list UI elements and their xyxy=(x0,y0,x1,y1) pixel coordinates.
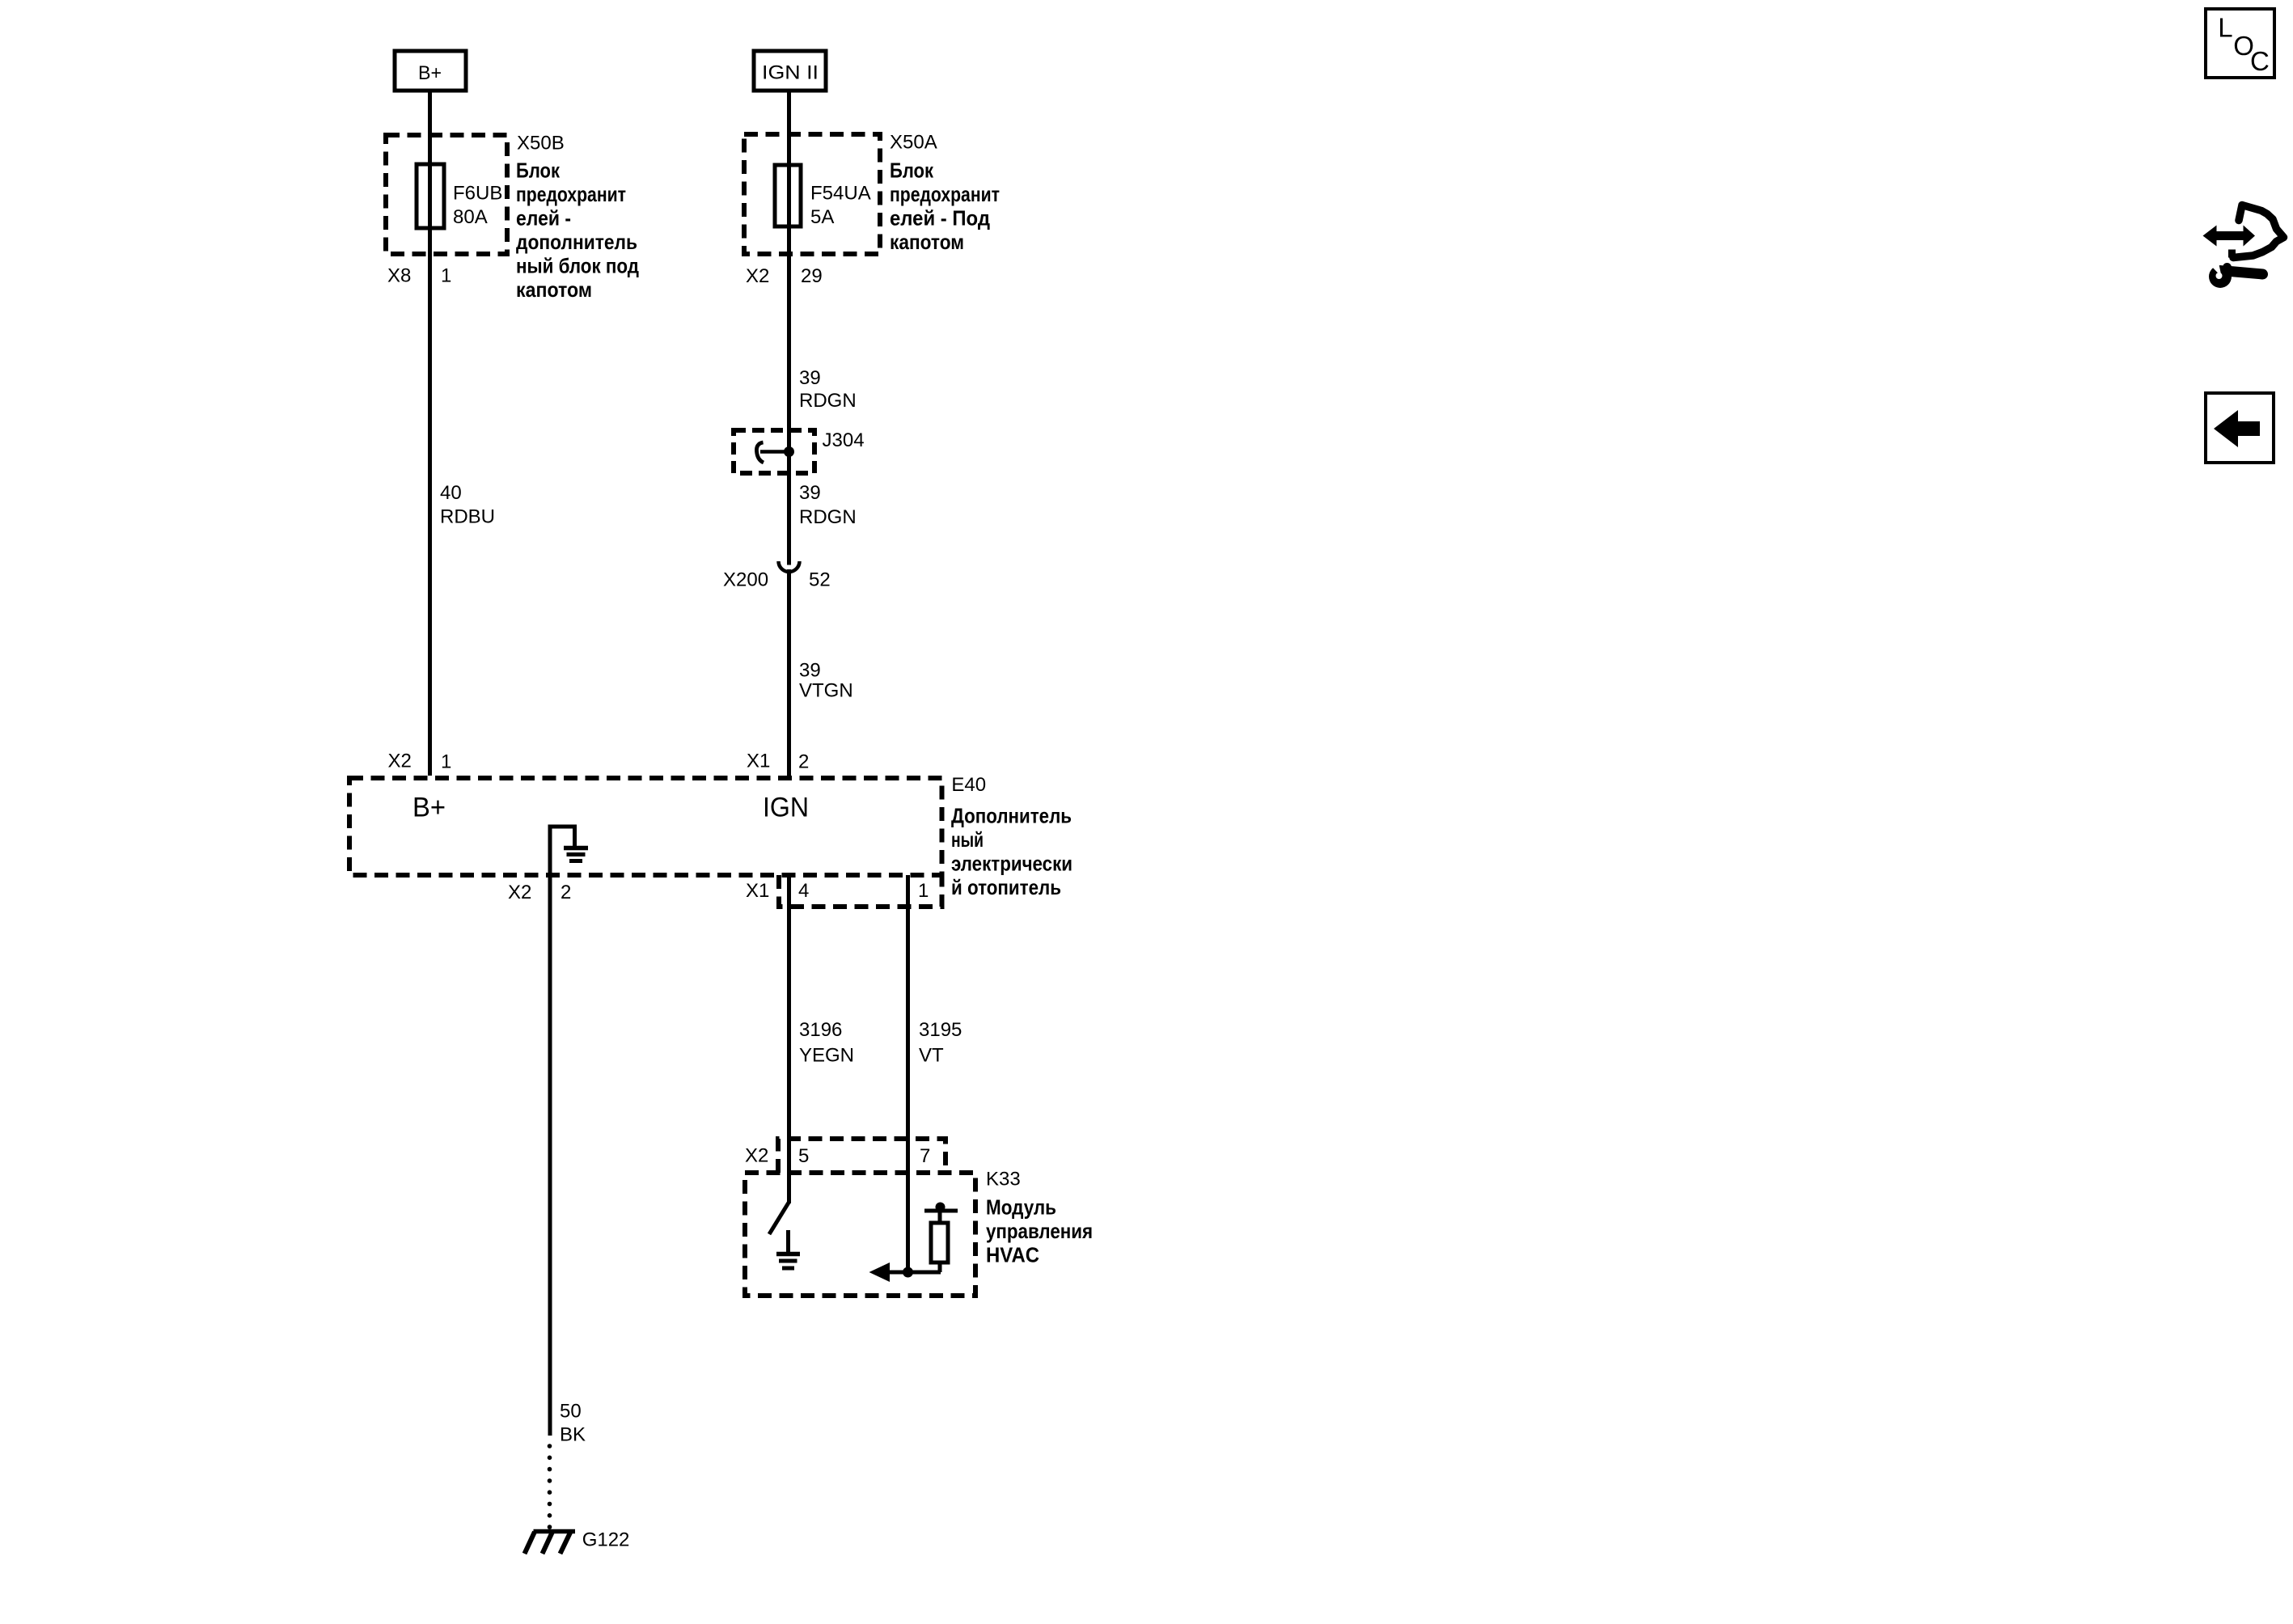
svg-text:C: C xyxy=(2250,46,2270,76)
svg-text:B+: B+ xyxy=(418,62,442,84)
connector row X200 / 52 xyxy=(723,569,831,591)
svg-text:IGN: IGN xyxy=(763,793,809,823)
X50B description text xyxy=(516,159,639,302)
svg-text:ный блок под: ный блок под xyxy=(516,254,639,278)
svg-text:X50A: X50A xyxy=(890,132,937,154)
svg-text:Модуль: Модуль xyxy=(986,1195,1056,1220)
svg-text:ный: ный xyxy=(951,827,984,852)
svg-text:X200: X200 xyxy=(723,569,768,591)
svg-text:G122: G122 xyxy=(582,1529,630,1551)
X50A description text xyxy=(890,159,1000,255)
svg-text:RDGN: RDGN xyxy=(799,506,857,528)
wire B+ feed to E40 pin X2-1 xyxy=(428,91,432,776)
svg-text:F54UA: F54UA xyxy=(810,182,871,204)
svg-text:й отопитель: й отопитель xyxy=(951,875,1061,899)
ground G122 symbol xyxy=(525,1532,576,1554)
svg-text:J304: J304 xyxy=(823,429,865,451)
svg-text:BK: BK xyxy=(560,1424,586,1446)
fuse F6UB 80A xyxy=(417,164,502,228)
svg-text:29: 29 xyxy=(801,265,823,287)
splice J304 dashed box xyxy=(734,430,814,473)
service info icon curved arrow outline xyxy=(2233,205,2284,258)
svg-text:управления: управления xyxy=(986,1219,1093,1243)
svg-text:капотом: капотом xyxy=(890,230,964,254)
pin row X1 / 4 / 1 at E40 extension xyxy=(746,880,929,902)
fuse block X50B dashed box xyxy=(386,135,507,254)
wire label 39 RDGN lower xyxy=(799,482,857,528)
K33 internal signal arrow xyxy=(869,1262,941,1282)
splice J304 symbol xyxy=(756,442,794,463)
svg-text:1: 1 xyxy=(918,880,929,902)
service info icon wrench xyxy=(2209,263,2263,289)
svg-text:Дополнитель: Дополнитель xyxy=(951,804,1072,828)
wire X200 to E40 pin X1-2 xyxy=(787,569,791,776)
svg-text:X2: X2 xyxy=(745,1145,768,1167)
svg-text:X2: X2 xyxy=(746,265,769,287)
svg-text:X2: X2 xyxy=(388,751,412,772)
svg-text:елей -: елей - xyxy=(516,206,571,230)
pin row X2 / 29 of X50A xyxy=(746,265,823,287)
svg-text:50: 50 xyxy=(560,1401,582,1423)
svg-text:4: 4 xyxy=(798,880,809,902)
service info icon bracket stub xyxy=(2228,250,2236,258)
svg-text:K33: K33 xyxy=(986,1168,1021,1190)
E40 description text xyxy=(951,804,1072,900)
svg-text:F6UB: F6UB xyxy=(453,182,502,204)
svg-text:5A: 5A xyxy=(810,206,834,228)
svg-text:3196: 3196 xyxy=(799,1019,842,1041)
svg-text:IGN II: IGN II xyxy=(762,62,819,84)
svg-text:39: 39 xyxy=(799,482,821,504)
K33 internal resistor element xyxy=(924,1203,958,1273)
svg-text:елей - Под: елей - Под xyxy=(890,206,990,230)
wire E40 X1-4 to K33 switch xyxy=(787,875,791,1203)
svg-text:52: 52 xyxy=(809,569,831,591)
power feed box B+ xyxy=(395,51,466,91)
dotted wire segment to G122 xyxy=(548,1444,552,1529)
svg-text:YEGN: YEGN xyxy=(799,1045,854,1067)
K33 internal ground symbol xyxy=(776,1254,800,1269)
svg-text:2: 2 xyxy=(561,882,571,903)
connector X200 symbol xyxy=(779,561,800,572)
svg-text:Блок: Блок xyxy=(516,159,561,183)
pin row X8 / 1 of X50B xyxy=(387,265,451,287)
svg-text:1: 1 xyxy=(441,265,451,287)
wire label 3195 VT xyxy=(919,1019,962,1067)
svg-text:X2: X2 xyxy=(508,882,531,903)
svg-text:39: 39 xyxy=(799,367,821,389)
pin row X1 / 2 at E40 top right xyxy=(747,751,809,773)
wire label 40 RDBU xyxy=(440,482,495,528)
E40 lower extension dashed box xyxy=(779,875,942,907)
connector X2 dashed box at K33 xyxy=(778,1139,946,1173)
svg-text:X1: X1 xyxy=(746,880,769,902)
svg-text:7: 7 xyxy=(920,1145,930,1167)
K33 internal switch xyxy=(769,1203,789,1253)
wire IGN II feed to X200 xyxy=(787,91,791,565)
wire E40 pin1 to K33 resistor junction xyxy=(906,875,910,1272)
LOC reference box xyxy=(2206,9,2274,78)
wire label 39 RDGN upper xyxy=(799,367,857,412)
wire label 3196 YEGN xyxy=(799,1019,854,1067)
svg-text:1: 1 xyxy=(441,751,451,773)
power feed box IGN II xyxy=(754,51,826,91)
svg-text:2: 2 xyxy=(798,751,809,773)
svg-text:X1: X1 xyxy=(747,751,770,772)
svg-text:E40: E40 xyxy=(951,774,986,796)
svg-text:39: 39 xyxy=(799,660,821,682)
wire label 39 VTGN xyxy=(799,660,853,702)
pin row X2 / 1 at E40 top left xyxy=(388,751,452,773)
svg-text:VT: VT xyxy=(919,1045,944,1067)
pin row X2 / 5 / 7 at K33 xyxy=(745,1145,930,1168)
svg-text:HVAC: HVAC xyxy=(986,1243,1039,1267)
svg-text:предохранит: предохранит xyxy=(890,182,1000,206)
svg-text:5: 5 xyxy=(798,1145,809,1167)
svg-text:B+: B+ xyxy=(412,793,446,823)
K33 HVAC module dashed box xyxy=(745,1173,975,1296)
svg-text:предохранит: предохранит xyxy=(516,182,626,206)
svg-text:X8: X8 xyxy=(387,265,411,287)
fuse block X50A dashed box xyxy=(744,134,880,254)
svg-text:дополнитель: дополнитель xyxy=(516,230,637,254)
svg-text:RDBU: RDBU xyxy=(440,506,495,528)
svg-text:40: 40 xyxy=(440,482,462,504)
svg-text:80A: 80A xyxy=(453,206,488,228)
svg-text:3195: 3195 xyxy=(919,1019,962,1041)
service info icon double arrow xyxy=(2203,226,2256,247)
wire E40 ground to G122 xyxy=(548,827,552,1436)
back arrow box xyxy=(2206,393,2274,463)
fuse F54UA 5A xyxy=(775,165,871,228)
svg-text:электрически: электрически xyxy=(951,852,1072,876)
E40 heater dashed box xyxy=(349,778,942,875)
svg-text:RDGN: RDGN xyxy=(799,390,857,412)
svg-text:Блок: Блок xyxy=(890,159,934,183)
wire label 50 BK xyxy=(560,1401,586,1446)
K33 description text xyxy=(986,1195,1093,1267)
svg-text:VTGN: VTGN xyxy=(799,680,853,702)
svg-text:L: L xyxy=(2218,12,2232,42)
svg-text:капотом: капотом xyxy=(516,277,592,302)
pin row X2 / 2 at E40 bottom ground xyxy=(508,882,571,903)
svg-text:X50B: X50B xyxy=(517,132,565,154)
E40 internal ground symbol xyxy=(548,827,589,861)
